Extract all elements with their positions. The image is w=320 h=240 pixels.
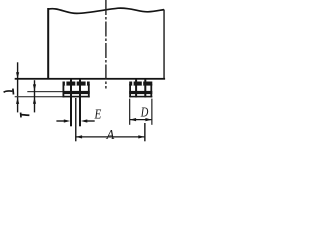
right standoff bottom edge [129,96,152,98]
left crimp band slits [65,82,67,86]
dim E left line [56,120,64,122]
dim A right arrowhead [138,135,144,138]
svg-text:D: D [140,105,148,120]
dim T lower arrowhead [33,97,36,103]
dim T upper arrowhead [33,84,36,90]
dim T line [34,80,36,112]
dim D right extension line [151,99,152,125]
dim L upper arrowhead [16,72,19,78]
dim A left arrowhead [76,135,82,138]
dim L line [17,62,19,112]
dim E right arrowhead [81,119,87,122]
left lead pin right line [79,80,81,127]
right standoff divider line [129,91,152,94]
left standoff bottom edge [63,96,90,98]
right lead crimp band [129,82,152,86]
standoff divider extension line [27,91,62,92]
capacitor body broken top (wavy break line) [48,8,164,13]
right standoff flange left edge [129,84,131,97]
capacitor body left edge [47,8,49,79]
left standoff flange right edge [88,84,90,97]
left lead centerline extension for dim A [75,98,77,141]
dim D line [130,119,152,121]
dim D left arrowhead [130,118,136,121]
dim D right arrowhead [145,118,151,121]
dim L label (rotated glyph) [4,91,13,92]
svg-text:E: E [94,108,102,123]
dim E right line [87,120,95,122]
capacitor body right edge [163,10,165,80]
dim T label (rotated glyph) [20,113,22,118]
right standoff flange right edge [150,84,152,97]
body bottom edge with left extension line for dim L [15,78,165,80]
dim A line [76,136,145,138]
right lead pin left line [135,80,137,98]
standoff bottom extension line [15,96,63,97]
left standoff divider line [63,91,90,94]
svg-text:A: A [106,128,115,143]
vertical centerline (dash-dot) [105,0,107,89]
dim D left extension line [129,99,130,125]
left lead pin left line [70,80,72,127]
left standoff flange left edge [63,84,65,97]
dim A right extension line [144,123,146,141]
right crimp band slits [132,82,133,86]
dim L lower arrowhead [16,98,19,104]
left lead crimp band [63,82,90,86]
dim E left arrowhead [64,119,70,122]
right lead pin right line [144,80,146,98]
